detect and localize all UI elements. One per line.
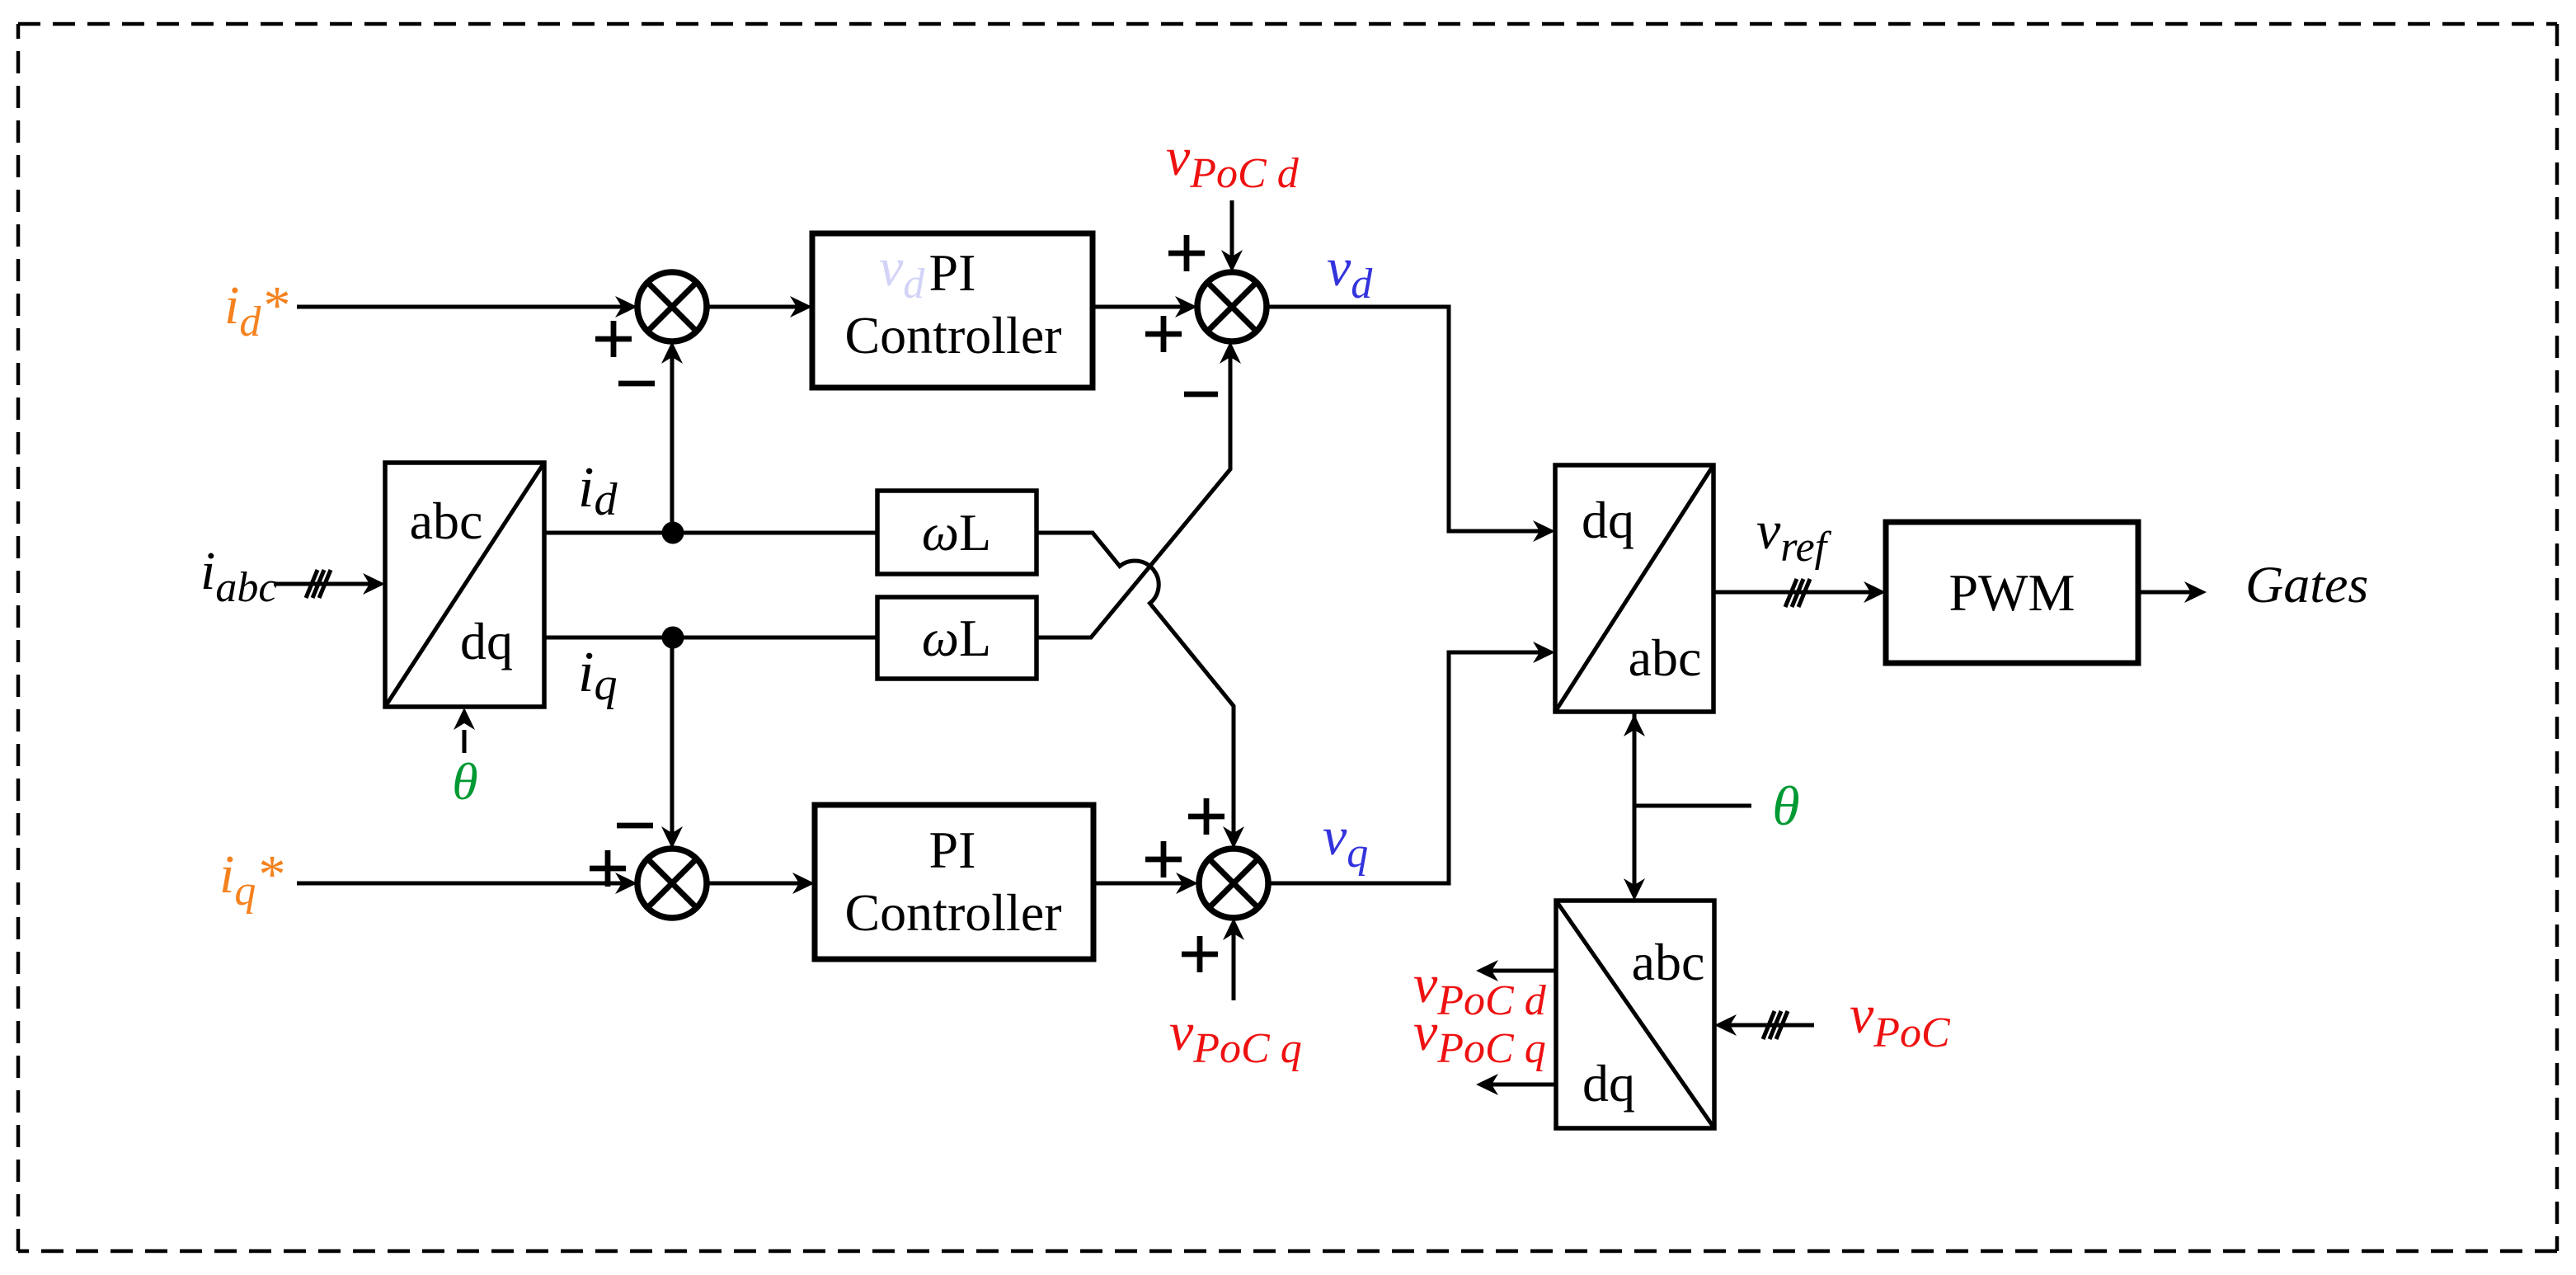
svg-text:dq: dq	[460, 612, 513, 670]
svg-text:dq: dq	[1582, 491, 1634, 549]
svg-text:θ: θ	[1772, 774, 1799, 837]
svg-text:abc: abc	[1632, 933, 1705, 991]
svg-text:ωL: ωL	[922, 609, 991, 667]
svg-text:Gates: Gates	[2245, 555, 2368, 614]
svg-text:dq: dq	[1582, 1054, 1635, 1113]
svg-text:Controller: Controller	[844, 883, 1061, 942]
svg-text:PWM: PWM	[1949, 563, 2075, 622]
svg-text:ωL: ωL	[922, 503, 991, 562]
svg-text:abc: abc	[1629, 628, 1702, 687]
svg-text:PI: PI	[929, 821, 976, 879]
svg-text:θ: θ	[452, 752, 477, 811]
svg-text:abc: abc	[410, 492, 483, 550]
svg-text:Controller: Controller	[844, 306, 1061, 365]
svg-text:PI: PI	[929, 243, 976, 302]
